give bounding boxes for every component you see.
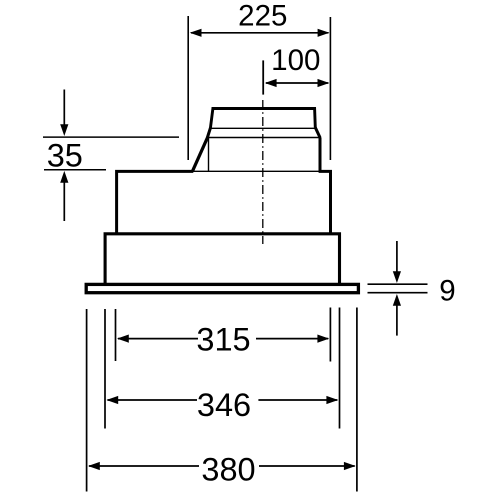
- platform left inner edge: [208, 138, 210, 171]
- collar flare joint line: [210, 127, 317, 129]
- dim 380 line left segment: [89, 465, 199, 467]
- svg-text:225: 225: [238, 0, 287, 33]
- dim 346 line right segment: [258, 399, 337, 401]
- dim 35 bottom arrow: [63, 181, 65, 221]
- hood top box: [117, 171, 193, 233]
- dim 9 bottom arrow: [396, 304, 398, 336]
- dim 225 right arrowhead: [318, 29, 330, 37]
- duct collar: [210, 109, 315, 129]
- dim 315 right extension line: [329, 308, 331, 362]
- dim 35 top arrow: [63, 90, 65, 127]
- svg-text:100: 100: [271, 44, 320, 77]
- centerline duct axis: [262, 100, 264, 244]
- dim 100 left arrowhead: [265, 79, 277, 87]
- svg-text:380: 380: [201, 452, 255, 488]
- dim 225 right extension line: [329, 17, 331, 160]
- hood top box hidden top edge: [192, 170, 319, 172]
- platform right side: [319, 137, 322, 171]
- dim 380 right extension line: [356, 308, 358, 492]
- dim 315 line left segment: [118, 338, 198, 340]
- dim 100 line: [266, 82, 328, 84]
- dim 9 upper extension line: [368, 283, 428, 285]
- dim 380 left extension line: [86, 309, 88, 492]
- dim 315 line right segment: [256, 338, 328, 340]
- dim 346 left extension line: [104, 309, 106, 429]
- duct collar top edge thick: [212, 107, 316, 110]
- dim 346 line left segment: [108, 399, 198, 401]
- dim 225 left extension line: [187, 16, 189, 160]
- collar flare left: [207, 128, 210, 138]
- dim 9 top arrow: [396, 241, 398, 273]
- dim 225 left arrowhead: [190, 29, 202, 37]
- dim 380 left arrowhead: [88, 462, 100, 470]
- left chamfer diagonal: [192, 137, 207, 172]
- dim 100 left tick: [262, 60, 264, 94]
- dim 346 left arrowhead: [106, 396, 118, 404]
- dim 35 upper extension line: [43, 136, 179, 138]
- dim 315 left extension line: [115, 309, 117, 361]
- hood middle box: [105, 234, 339, 285]
- dim 100 right arrowhead: [318, 79, 330, 87]
- dim 315 right arrowhead: [317, 335, 329, 343]
- svg-text:35: 35: [47, 137, 83, 173]
- svg-text:346: 346: [197, 387, 251, 423]
- platform top edge: [207, 137, 322, 139]
- dim 380 right arrowhead: [344, 462, 356, 470]
- collar flare right: [315, 128, 320, 138]
- svg-text:9: 9: [439, 275, 455, 308]
- hood top box right step: [319, 171, 331, 233]
- hood bottom lip flange: [86, 284, 358, 292]
- dim 35 lower extension line: [44, 169, 106, 171]
- dim 346 right arrowhead: [326, 396, 338, 404]
- dim 9 lower extension line: [368, 292, 428, 294]
- dim 380 line right segment: [259, 465, 355, 467]
- dim 315 left arrowhead: [117, 335, 129, 343]
- dim 346 right extension line: [339, 308, 341, 429]
- dim 225 line: [191, 32, 329, 34]
- svg-text:315: 315: [196, 321, 250, 357]
